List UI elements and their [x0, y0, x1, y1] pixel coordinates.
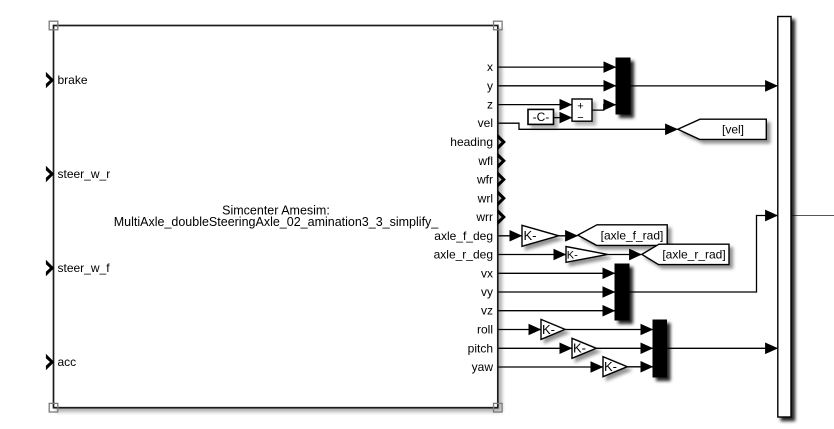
svg-text:[axle_f_rad]: [axle_f_rad]	[601, 229, 664, 243]
input port brake	[46, 72, 88, 88]
output label x	[487, 60, 493, 74]
mux M2	[615, 264, 629, 320]
svg-text:K-: K-	[542, 322, 555, 337]
goto tag [axle_f_rad]	[578, 225, 667, 246]
wire constant -C- to sum - input	[554, 117, 572, 119]
svg-text:MultiAxle_doubleSteeringAxle_0: MultiAxle_doubleSteeringAxle_02_aminatio…	[114, 215, 440, 229]
wire z output to sum + input	[498, 104, 572, 106]
output port wfr	[476, 171, 506, 187]
output port wfl	[477, 153, 506, 169]
selection handle top-left	[49, 21, 58, 30]
svg-text:vx: vx	[481, 266, 493, 280]
gain K2	[566, 247, 608, 263]
input port acc	[46, 354, 76, 370]
wire vel output to goto [vel]	[498, 123, 678, 129]
gain K4	[572, 338, 596, 358]
svg-text:steer_w_f: steer_w_f	[58, 261, 111, 275]
svg-text:axle_r_deg: axle_r_deg	[434, 248, 493, 262]
sum block	[572, 99, 592, 124]
svg-text:[vel]: [vel]	[722, 122, 744, 136]
wire axle_r_deg to gain K2	[498, 254, 566, 256]
wire bus bar output to right edge	[791, 215, 834, 217]
output label vy	[481, 285, 493, 299]
output port heading	[450, 134, 506, 150]
output label vz	[481, 304, 493, 318]
svg-text:wrl: wrl	[477, 191, 493, 205]
svg-text:−: −	[577, 112, 583, 124]
gain K1	[522, 225, 559, 246]
svg-text:wfl: wfl	[477, 154, 493, 168]
wire gain K1 to goto [axle_f_rad]	[559, 235, 578, 237]
subsystem block Simcenter Amesim	[54, 26, 498, 408]
bus bar mux	[778, 17, 791, 418]
output label yaw	[472, 360, 494, 374]
mux M1	[616, 58, 630, 114]
output port wrl	[477, 190, 506, 206]
constant block -C-	[528, 109, 554, 124]
wire axle_f_deg to gain K1	[498, 235, 522, 237]
svg-text:brake: brake	[58, 73, 88, 87]
wire yaw to gain K5	[498, 366, 603, 368]
output label z	[487, 98, 493, 112]
wire mux M3 output to bus bar	[667, 347, 778, 349]
subsystem label	[114, 204, 440, 229]
output label vx	[481, 266, 493, 280]
selection handle top-right	[494, 21, 503, 30]
output label y	[487, 79, 493, 93]
wire gain K3 to mux M3	[565, 329, 653, 331]
svg-text:heading: heading	[450, 135, 493, 149]
svg-text:wrr: wrr	[475, 210, 493, 224]
output port wrr	[475, 209, 506, 225]
svg-text:K-: K-	[573, 341, 586, 356]
wire mux M1 output to bus bar	[630, 85, 777, 87]
wire roll to gain K3	[498, 329, 541, 331]
output label axle_f_deg	[434, 229, 493, 243]
svg-text:yaw: yaw	[472, 360, 494, 374]
output label pitch	[468, 341, 493, 355]
output label roll	[477, 323, 493, 337]
wire mux M2 output to bus bar	[629, 216, 777, 293]
svg-text:pitch: pitch	[468, 341, 493, 355]
selection handle bottom-left	[49, 403, 58, 412]
wire y output to mux M1	[498, 85, 616, 87]
svg-text:wfr: wfr	[476, 173, 493, 187]
wire x output to mux M1	[498, 66, 616, 68]
svg-text:vy: vy	[481, 285, 493, 299]
input port steer_w_r	[46, 166, 110, 182]
wire vz to mux M2	[498, 310, 615, 312]
output label vel	[478, 116, 493, 130]
gain K3	[541, 319, 565, 339]
svg-text:y: y	[487, 79, 493, 93]
gain K5	[603, 357, 627, 377]
wire vy to mux M2	[498, 291, 615, 293]
svg-text:z: z	[487, 98, 493, 112]
svg-text:K-: K-	[567, 249, 578, 261]
wire gain K2 to goto [axle_r_rad]	[608, 254, 642, 256]
svg-text:-C-: -C-	[533, 110, 550, 124]
mux M3	[653, 320, 667, 377]
selection handle bottom-right	[494, 403, 503, 412]
svg-text:steer_w_r: steer_w_r	[58, 167, 111, 181]
svg-text:+: +	[577, 100, 583, 112]
input port steer_w_f	[46, 260, 110, 276]
svg-text:roll: roll	[477, 323, 493, 337]
goto tag [axle_r_rad]	[642, 244, 729, 264]
wire gain K5 to mux M3	[627, 366, 652, 368]
wire sum output to mux M1 third input	[592, 105, 616, 110]
wire vx to mux M2	[498, 272, 615, 274]
svg-text:[axle_r_rad]: [axle_r_rad]	[662, 248, 725, 262]
svg-text:vz: vz	[481, 304, 493, 318]
svg-text:K-: K-	[604, 359, 617, 374]
wire gain K4 to mux M3	[596, 347, 652, 349]
output label axle_r_deg	[434, 248, 493, 262]
svg-text:acc: acc	[58, 355, 77, 369]
svg-text:K-: K-	[524, 228, 537, 243]
svg-text:vel: vel	[478, 116, 493, 130]
svg-text:x: x	[487, 60, 493, 74]
svg-text:axle_f_deg: axle_f_deg	[434, 229, 493, 243]
goto tag [vel]	[678, 119, 767, 139]
wire pitch to gain K4	[498, 347, 572, 349]
